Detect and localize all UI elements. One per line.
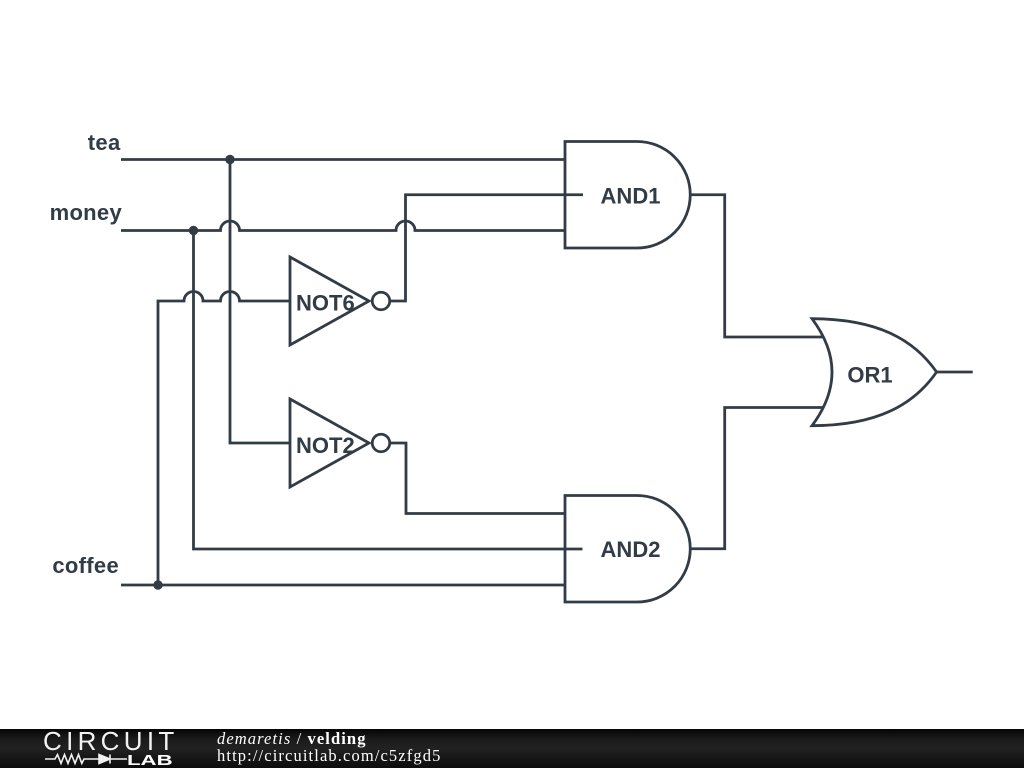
wire coffee net	[121, 584, 565, 587]
wire AND1 output to OR1 top input	[690, 195, 826, 337]
resistor zigzag	[45, 755, 99, 764]
and-gate AND2	[565, 496, 690, 603]
wire NOT2 output to AND2 top input	[390, 443, 566, 514]
wire money net with hops	[121, 221, 565, 230]
CircuitLab logo CIRCUIT	[43, 728, 179, 754]
svg-text:AND2: AND2	[601, 537, 661, 562]
svg-text:coffee: coffee	[52, 553, 119, 578]
svg-text:OR1: OR1	[847, 363, 892, 388]
wire AND2 middle input stub	[565, 548, 583, 551]
diode	[99, 755, 110, 764]
wire OR1 output	[937, 371, 973, 374]
junction on tea net	[225, 155, 234, 164]
not-gate NOT6 bubble	[372, 292, 390, 310]
CircuitLab logo LAB	[127, 753, 173, 768]
svg-text:NOT6: NOT6	[296, 291, 355, 316]
svg-text:money: money	[50, 200, 123, 225]
wire AND1 middle input stub	[565, 193, 583, 196]
not-gate NOT6 triangle	[290, 257, 369, 345]
not-gate NOT2 triangle	[290, 399, 369, 487]
svg-text:AND1: AND1	[601, 184, 661, 209]
wire tea branch to NOT2 input	[230, 160, 290, 444]
wire money branch to AND2 middle input	[194, 231, 566, 550]
CircuitLab logo resistor-diode symbol	[43, 752, 128, 768]
svg-text:tea: tea	[88, 130, 121, 155]
or-gate OR1	[812, 319, 937, 426]
junction on money net	[189, 226, 198, 235]
svg-text:NOT2: NOT2	[296, 433, 355, 458]
footer bar	[0, 729, 1024, 768]
not-gate NOT2 bubble	[372, 434, 390, 452]
wire AND2 output to OR1 bottom input	[689, 408, 826, 549]
junction on coffee net	[153, 580, 162, 589]
wire NOT6 output to AND1 middle input	[390, 195, 566, 301]
wire tea net	[121, 158, 565, 161]
credit line	[217, 730, 367, 748]
url line	[217, 747, 441, 765]
wire coffee branch to NOT6 input with hops	[158, 292, 290, 586]
and-gate AND1	[565, 142, 690, 249]
